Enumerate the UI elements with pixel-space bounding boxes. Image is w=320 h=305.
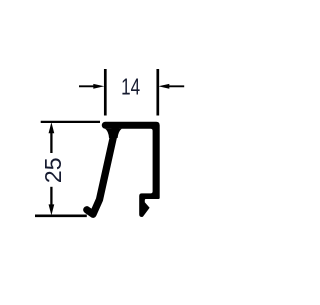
svg-text:14: 14 (121, 74, 140, 100)
svg-text:25: 25 (40, 158, 66, 184)
